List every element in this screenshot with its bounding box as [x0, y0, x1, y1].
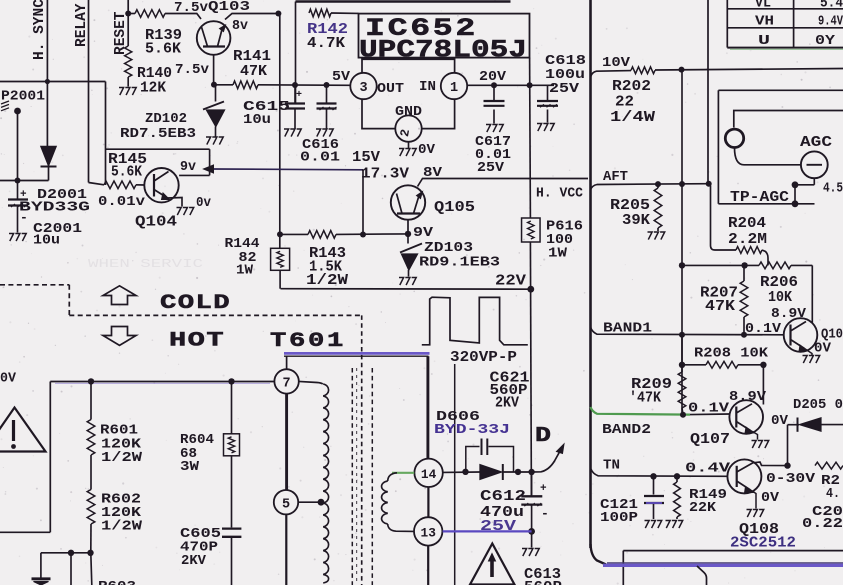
svg-text:47K: 47K [240, 64, 267, 80]
svg-text:T601: T601 [270, 330, 346, 353]
svg-text:Q107: Q107 [690, 432, 730, 448]
svg-text:RELAY: RELAY [74, 3, 90, 47]
svg-text:10u: 10u [243, 113, 271, 128]
svg-text:0.22: 0.22 [802, 517, 843, 532]
svg-text:5.6K: 5.6K [145, 42, 181, 58]
svg-text:22: 22 [615, 95, 634, 111]
svg-text:OUT: OUT [377, 82, 404, 97]
svg-text:12K: 12K [140, 81, 166, 97]
svg-text:C612: C612 [480, 489, 526, 505]
svg-text:39K: 39K [622, 213, 650, 229]
svg-text:COLD: COLD [160, 292, 231, 315]
svg-text:10V: 10V [602, 56, 631, 71]
svg-text:4.5: 4.5 [823, 182, 843, 197]
svg-text:0.01: 0.01 [300, 151, 340, 166]
svg-text:47K: 47K [705, 299, 735, 315]
svg-text:8.9V: 8.9V [771, 307, 807, 322]
svg-text:ZD102: ZD102 [145, 112, 187, 127]
svg-text:TP-AGC: TP-AGC [730, 190, 789, 206]
svg-text:14: 14 [421, 467, 437, 482]
svg-text:0v: 0v [196, 196, 212, 211]
svg-text:560P: 560P [524, 580, 562, 585]
svg-text:25V: 25V [480, 519, 516, 535]
svg-text:5.4: 5.4 [820, 0, 843, 12]
svg-text:RD7.5EB3: RD7.5EB3 [120, 127, 196, 142]
svg-text:0.1V: 0.1V [688, 402, 730, 417]
svg-text:3: 3 [359, 81, 367, 96]
svg-text:U: U [758, 34, 770, 49]
svg-text:8.9V: 8.9V [729, 390, 767, 405]
svg-text:0V: 0V [814, 342, 832, 357]
svg-text:13: 13 [421, 526, 437, 541]
svg-text:5.6K: 5.6K [111, 165, 142, 181]
svg-text:TN: TN [603, 459, 620, 474]
svg-text:100u: 100u [545, 68, 585, 83]
svg-text:ZD103: ZD103 [424, 241, 473, 256]
svg-text:HOT: HOT [169, 330, 225, 353]
svg-text:-: - [541, 506, 549, 521]
svg-text:R208 10K: R208 10K [694, 347, 769, 362]
svg-text:Q105: Q105 [434, 200, 475, 216]
svg-text:'47K: '47K [629, 391, 661, 407]
svg-text:1: 1 [450, 81, 458, 96]
svg-text:2SC2512: 2SC2512 [730, 536, 796, 552]
svg-text:2KV: 2KV [495, 396, 519, 412]
svg-text:UPC78L05J: UPC78L05J [359, 36, 527, 65]
svg-text:1W: 1W [548, 247, 568, 262]
svg-text:9V: 9V [413, 226, 434, 241]
svg-text:1/2W: 1/2W [101, 519, 143, 535]
svg-text:9v: 9v [180, 160, 197, 175]
svg-text:5: 5 [282, 497, 290, 512]
svg-text:8v: 8v [232, 19, 249, 34]
svg-text:22K: 22K [689, 501, 717, 516]
svg-text:AGC: AGC [800, 135, 832, 151]
svg-text:+: + [540, 483, 547, 495]
svg-text:1/4W: 1/4W [610, 110, 655, 126]
svg-text:4.: 4. [826, 487, 840, 502]
svg-text:P2001: P2001 [1, 90, 45, 105]
svg-text:R205: R205 [610, 198, 650, 214]
svg-text:7: 7 [283, 377, 291, 392]
svg-text:9.4V: 9.4V [818, 15, 843, 30]
svg-text:D205 0: D205 0 [793, 398, 843, 413]
svg-text:Q104: Q104 [135, 215, 177, 231]
svg-text:15V: 15V [352, 150, 380, 166]
svg-text:10u: 10u [33, 234, 60, 249]
svg-text:5V: 5V [332, 70, 351, 85]
svg-text:1/2W: 1/2W [306, 273, 348, 289]
svg-text:4.7K: 4.7K [307, 36, 345, 52]
svg-text:100P: 100P [600, 511, 638, 526]
svg-text:10K: 10K [768, 290, 792, 306]
svg-text:25V: 25V [477, 161, 505, 176]
svg-text:BYD-33J: BYD-33J [434, 423, 510, 438]
svg-text:20V: 20V [479, 70, 507, 85]
svg-text:Q10: Q10 [821, 328, 843, 343]
svg-text:R144: R144 [225, 237, 260, 252]
svg-text:2KV: 2KV [181, 554, 207, 569]
svg-text:D: D [535, 425, 551, 448]
svg-text:0V: 0V [771, 414, 789, 429]
svg-text:7.5v: 7.5v [175, 63, 210, 78]
svg-text:1/2W: 1/2W [101, 450, 143, 466]
svg-text:RD9.1EB3: RD9.1EB3 [419, 256, 500, 271]
svg-text:GND: GND [395, 105, 422, 120]
svg-text:VL: VL [755, 0, 771, 12]
svg-text:IN: IN [419, 80, 436, 95]
svg-text:R206: R206 [760, 275, 798, 291]
svg-text:BAND2: BAND2 [602, 423, 651, 438]
svg-text:1W: 1W [236, 264, 254, 279]
svg-text:BYD33G: BYD33G [19, 201, 90, 216]
svg-text:+: + [20, 189, 27, 201]
svg-text:3W: 3W [180, 460, 200, 475]
svg-text:R204: R204 [728, 216, 766, 232]
svg-text:22V: 22V [495, 274, 526, 290]
svg-text:BAND1: BAND1 [603, 322, 652, 337]
svg-text:+: + [296, 90, 302, 101]
svg-text:0-30V: 0-30V [766, 472, 816, 487]
svg-text:R601: R601 [100, 424, 138, 439]
svg-text:0.4V: 0.4V [685, 462, 731, 477]
svg-text:0.01v: 0.01v [98, 195, 146, 210]
svg-text:7.5v: 7.5v [174, 1, 209, 16]
svg-text:WHEN SERVIC: WHEN SERVIC [88, 257, 203, 271]
svg-text:320VP-P: 320VP-P [450, 350, 517, 366]
svg-text:C618: C618 [545, 54, 586, 69]
svg-text:H. SYNC: H. SYNC [32, 0, 48, 60]
svg-text:H. VCC: H. VCC [536, 187, 583, 202]
svg-text:VH: VH [755, 15, 774, 30]
svg-text:25V: 25V [549, 82, 580, 97]
svg-text:0V: 0V [761, 491, 780, 506]
svg-text:0Y: 0Y [815, 34, 836, 49]
svg-text:0V: 0V [0, 372, 17, 387]
svg-text:17.3V: 17.3V [361, 167, 409, 183]
svg-text:0.1V: 0.1V [745, 322, 782, 337]
svg-text:AFT: AFT [603, 170, 628, 185]
svg-text:2.2M: 2.2M [728, 232, 767, 248]
svg-text:R202: R202 [612, 79, 651, 95]
svg-text:R141: R141 [233, 49, 271, 65]
svg-text:R603: R603 [98, 580, 136, 585]
svg-text:0V: 0V [418, 143, 436, 158]
svg-text:R604: R604 [180, 433, 214, 448]
